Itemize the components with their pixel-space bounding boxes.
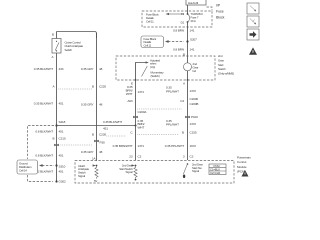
svg-text:1371: 1371 (138, 90, 145, 94)
wire W3: BRN/WHT from 2nd gear switch down to PCM (135, 80, 137, 160)
label: 2nd Gear Start Switch (right of box) (218, 54, 234, 76)
label: 0.35 BLK/WHT 451 on W1 below C220 (34, 102, 64, 106)
svg-text:Start: Start (218, 63, 224, 67)
svg-text:S218: S218 (59, 120, 66, 124)
label: 0.8 BRN 141 (fuse to S207) (173, 29, 195, 33)
connector C220 row: pin A / dotted / pin B (53, 85, 107, 90)
svg-text:C3: C3 (190, 155, 194, 159)
hyperlink icon 2 (diagonal arrow) (247, 16, 259, 27)
wire W1: left vertical BLK/WHT from switch A down to G302 (56, 53, 58, 182)
svg-text:Ind: Ind (193, 69, 197, 73)
svg-text:B: B (53, 137, 55, 141)
svg-text:A: A (52, 55, 55, 59)
connector C200 row: pins A63 / C4 (127, 97, 198, 114)
svg-text:451: 451 (103, 126, 108, 130)
svg-text:S207: S207 (190, 38, 197, 42)
svg-text:0.35 BLK/WHT: 0.35 BLK/WHT (103, 120, 122, 124)
svg-text:0.8 BLK/WHT: 0.8 BLK/WHT (35, 154, 53, 158)
svg-text:Block: Block (216, 16, 225, 20)
ground G302 (55, 180, 66, 184)
svg-text:Signal: Signal (126, 170, 133, 174)
svg-text:WHT: WHT (126, 92, 133, 96)
svg-text:141: 141 (190, 29, 195, 33)
svg-text:C220: C220 (99, 85, 106, 89)
label: 2 BLK/WHT 451 (38, 170, 64, 174)
svg-text:1372: 1372 (190, 122, 197, 126)
dashed arrow from ground distribution box to splice S310 (39, 164, 54, 167)
label: Cruise Control Clutch Anticipate Switch (65, 41, 84, 52)
svg-text:0.8 BRN: 0.8 BRN (173, 48, 184, 52)
svg-text:0.35 BLK/WHT: 0.35 BLK/WHT (34, 102, 53, 106)
momentary switch inside 2nd gear box (136, 58, 165, 80)
label: 0.35 PPL/WHT 1672 lower (165, 144, 197, 148)
svg-text:(Up): (Up) (150, 65, 155, 69)
powertrain control module dashed box (75, 161, 234, 184)
svg-text:Switch: Switch (218, 67, 226, 71)
label: 0.8 BLK/WHT 451 on W1 (35, 130, 63, 134)
svg-text:Hot At All: Hot At All (188, 1, 198, 5)
svg-text:Control: Control (237, 160, 247, 164)
label: Powertrain Control Module (PCM) (237, 155, 251, 173)
wire W2: right vertical GRY down to PCM (96, 33, 98, 161)
svg-text:451: 451 (59, 102, 64, 106)
svg-text:0.35 BLK/WHT: 0.35 BLK/WHT (34, 67, 53, 71)
fuse block details reference box (S207) (141, 36, 164, 48)
svg-text:C155: C155 (190, 131, 197, 135)
svg-text:Signal: Signal (78, 174, 85, 178)
label: 0.35 BRN/WHT 1371 lower (113, 144, 145, 148)
dashed reference line to ground G302 (28, 175, 54, 182)
svg-text:0.35 BRN/WHT: 0.35 BRN/WHT (113, 144, 133, 148)
wire W5: PPL/WHT from lamp down to PCM (187, 80, 189, 160)
label: 0.35 BRN/WHT 1371 above C200 (126, 85, 145, 96)
svg-text:G302: G302 (59, 180, 66, 184)
svg-text:A: A (53, 85, 56, 89)
label: 0.8 BRN 141 (S207 to switch) (173, 48, 195, 52)
svg-text:Signal: Signal (192, 169, 199, 173)
wire: horizontal BLK/WHT 451 from S218 to node on W3 (57, 125, 137, 127)
svg-text:B: B (92, 133, 94, 137)
svg-text:C230: C230 (99, 133, 106, 137)
label: I/P Fuse Block (216, 4, 225, 20)
hot at all times box (clipped at top) (186, 0, 206, 5)
svg-text:2 BLK/WHT: 2 BLK/WHT (38, 170, 53, 174)
svg-text:C210: C210 (59, 137, 66, 141)
splice S310 on W1 (55, 164, 65, 168)
connector C155 row: pins C / B (130, 131, 196, 135)
svg-text:A: A (183, 82, 186, 86)
dashed link from hot box to fuse block (207, 7, 213, 11)
svg-text:B: B (182, 131, 184, 135)
2nd gear start switch sense contact inside PCM (183, 162, 203, 178)
clutch anticipate switch signal input w/ pull-up resistor R1 (78, 164, 98, 183)
svg-text:WHT: WHT (138, 126, 145, 130)
node E at box bottom (131, 79, 136, 85)
svg-text:B: B (52, 33, 54, 37)
svg-text:C200B: C200B (190, 102, 199, 106)
connector C210 row on W1: pin B (53, 137, 66, 141)
in-line connector P100 symbols on both wires (133, 115, 198, 119)
svg-text:(Only w/MM5): (Only w/MM5) (218, 72, 234, 76)
svg-text:48: 48 (99, 103, 103, 107)
svg-text:451: 451 (59, 170, 64, 174)
svg-text:F1: F1 (181, 12, 185, 16)
svg-text:Cell 14: Cell 14 (19, 168, 27, 172)
svg-text:Fuse: Fuse (216, 10, 224, 14)
hyperlink icon 3 (solid right arrow) (247, 29, 259, 40)
svg-text:Cell 11: Cell 11 (146, 20, 154, 24)
svg-text:1A: 1A (92, 157, 97, 161)
splice S207 (186, 38, 197, 43)
svg-text:1372: 1372 (190, 89, 197, 93)
svg-text:23: 23 (129, 155, 133, 159)
svg-text:C4: C4 (180, 99, 184, 103)
hyperlink icon 1 (diagonal arrow) (247, 3, 259, 14)
svg-text:451: 451 (59, 130, 64, 134)
in-line connector symbol on W1 (C210) (54, 144, 92, 146)
I/P fuse block dashed box (142, 11, 212, 27)
svg-text:I/P: I/P (216, 4, 221, 8)
wire W4: BRN wire from fuse down into 2nd gear box (187, 22, 189, 56)
2nd gear start switch signal input w/ resistor R2 (119, 163, 137, 180)
svg-text:S310: S310 (59, 165, 66, 169)
splice S218 junction on W1 (55, 120, 65, 127)
svg-text:C2: C2 (138, 155, 142, 159)
svg-text:Switch: Switch (65, 48, 73, 52)
indicator lamp inside 2nd gear box (184, 56, 199, 80)
svg-text:(Switch): (Switch) (151, 74, 160, 78)
svg-text:0.35 GRY: 0.35 GRY (81, 150, 94, 154)
wire: pin B stub above clutch anticipate switch (56, 32, 58, 39)
svg-text:C2000: C2000 (190, 97, 199, 101)
PCM connector id table (209, 164, 226, 175)
svg-text:3: 3 (183, 155, 185, 159)
svg-text:48: 48 (99, 67, 103, 71)
svg-text:433: 433 (59, 67, 64, 71)
svg-text:B: B (92, 85, 94, 89)
svg-text:P100: P100 (191, 115, 198, 119)
cruise control clutch anticipate switch S1 body (52, 39, 61, 54)
svg-text:1672: 1672 (190, 144, 197, 148)
svg-text:C2=CLR: C2=CLR (210, 171, 220, 175)
label: TURN B/U Fuse 7 20 A (191, 12, 203, 23)
wire: top horizontal from switch B to right branch (57, 32, 97, 39)
arrow pointing at fuse block details text (166, 13, 185, 15)
label: Fuse Block Details Cell 11 (inside fuse block box) (146, 12, 159, 23)
label: 0.35 PPL/WHT 1372 above C200 (166, 86, 196, 94)
svg-text:D1: D1 (181, 20, 185, 24)
svg-text:2nd: 2nd (218, 54, 223, 58)
svg-text:0.8 BLK/WHT: 0.8 BLK/WHT (35, 130, 53, 134)
svg-text:0.35 GRY: 0.35 GRY (81, 103, 94, 107)
label: 0.35 PPL/WHT 1372 below P100 (166, 119, 196, 127)
svg-text:C200A: C200A (138, 110, 148, 114)
node A at box bottom (183, 79, 188, 85)
dashed reference line from S218 to ground distribution path (28, 126, 55, 160)
svg-text:A63: A63 (127, 99, 133, 103)
svg-text:0.35 GRY: 0.35 GRY (81, 67, 94, 71)
svg-text:451: 451 (59, 154, 64, 158)
svg-text:Module: Module (237, 165, 247, 169)
warning triangle icon (right middle) (249, 47, 257, 54)
svg-text:1371: 1371 (138, 144, 145, 148)
svg-text:0.8 BRN: 0.8 BRN (173, 29, 184, 33)
in-line connector symbol on W2 (P30) (94, 140, 105, 145)
connector C230 row on W2: pin B (92, 133, 126, 137)
svg-text:0.35 PPL/WHT: 0.35 PPL/WHT (165, 144, 184, 148)
node: PCM pin 23 C2 (129, 155, 141, 159)
svg-text:141: 141 (190, 48, 195, 52)
svg-text:20 A: 20 A (191, 19, 196, 23)
label: 0.35 GRY 48 (upper segment) (81, 67, 103, 71)
svg-text:48: 48 (99, 150, 103, 154)
svg-text:P30: P30 (100, 141, 106, 145)
svg-text:PPL/WHT: PPL/WHT (166, 123, 179, 127)
dashed arrow from details box to splice S207 (165, 40, 184, 43)
ground distribution reference box (17, 160, 38, 174)
label: 0.35 BRN/WHT below P100 (138, 119, 145, 130)
node: PCM pin 3 C3 (183, 155, 194, 159)
fuse F1/D1 (TURN B/U 20A) (181, 12, 190, 25)
2nd gear start switch dashed box (116, 56, 215, 80)
label: 0.35 GRY 48 on W2 below C220 (81, 103, 103, 107)
label: 0.35 BLK/WHT 433 (switch to C220) (34, 67, 64, 71)
label: 0.35 GRY 48 on W2 lower segment (81, 150, 103, 154)
warning triangle icon (bottom right) (242, 170, 249, 177)
svg-text:Gear: Gear (218, 58, 224, 62)
svg-text:PPL/WHT: PPL/WHT (166, 89, 179, 93)
wire: stub from hot box into fuse (187, 5, 189, 14)
svg-text:5V: 5V (94, 179, 97, 183)
svg-text:Powertrain: Powertrain (237, 155, 251, 159)
label: 0.8 BLK/WHT 451 below C210 (35, 154, 63, 158)
svg-text:Cell 11: Cell 11 (144, 44, 152, 48)
svg-text:C: C (130, 131, 133, 135)
